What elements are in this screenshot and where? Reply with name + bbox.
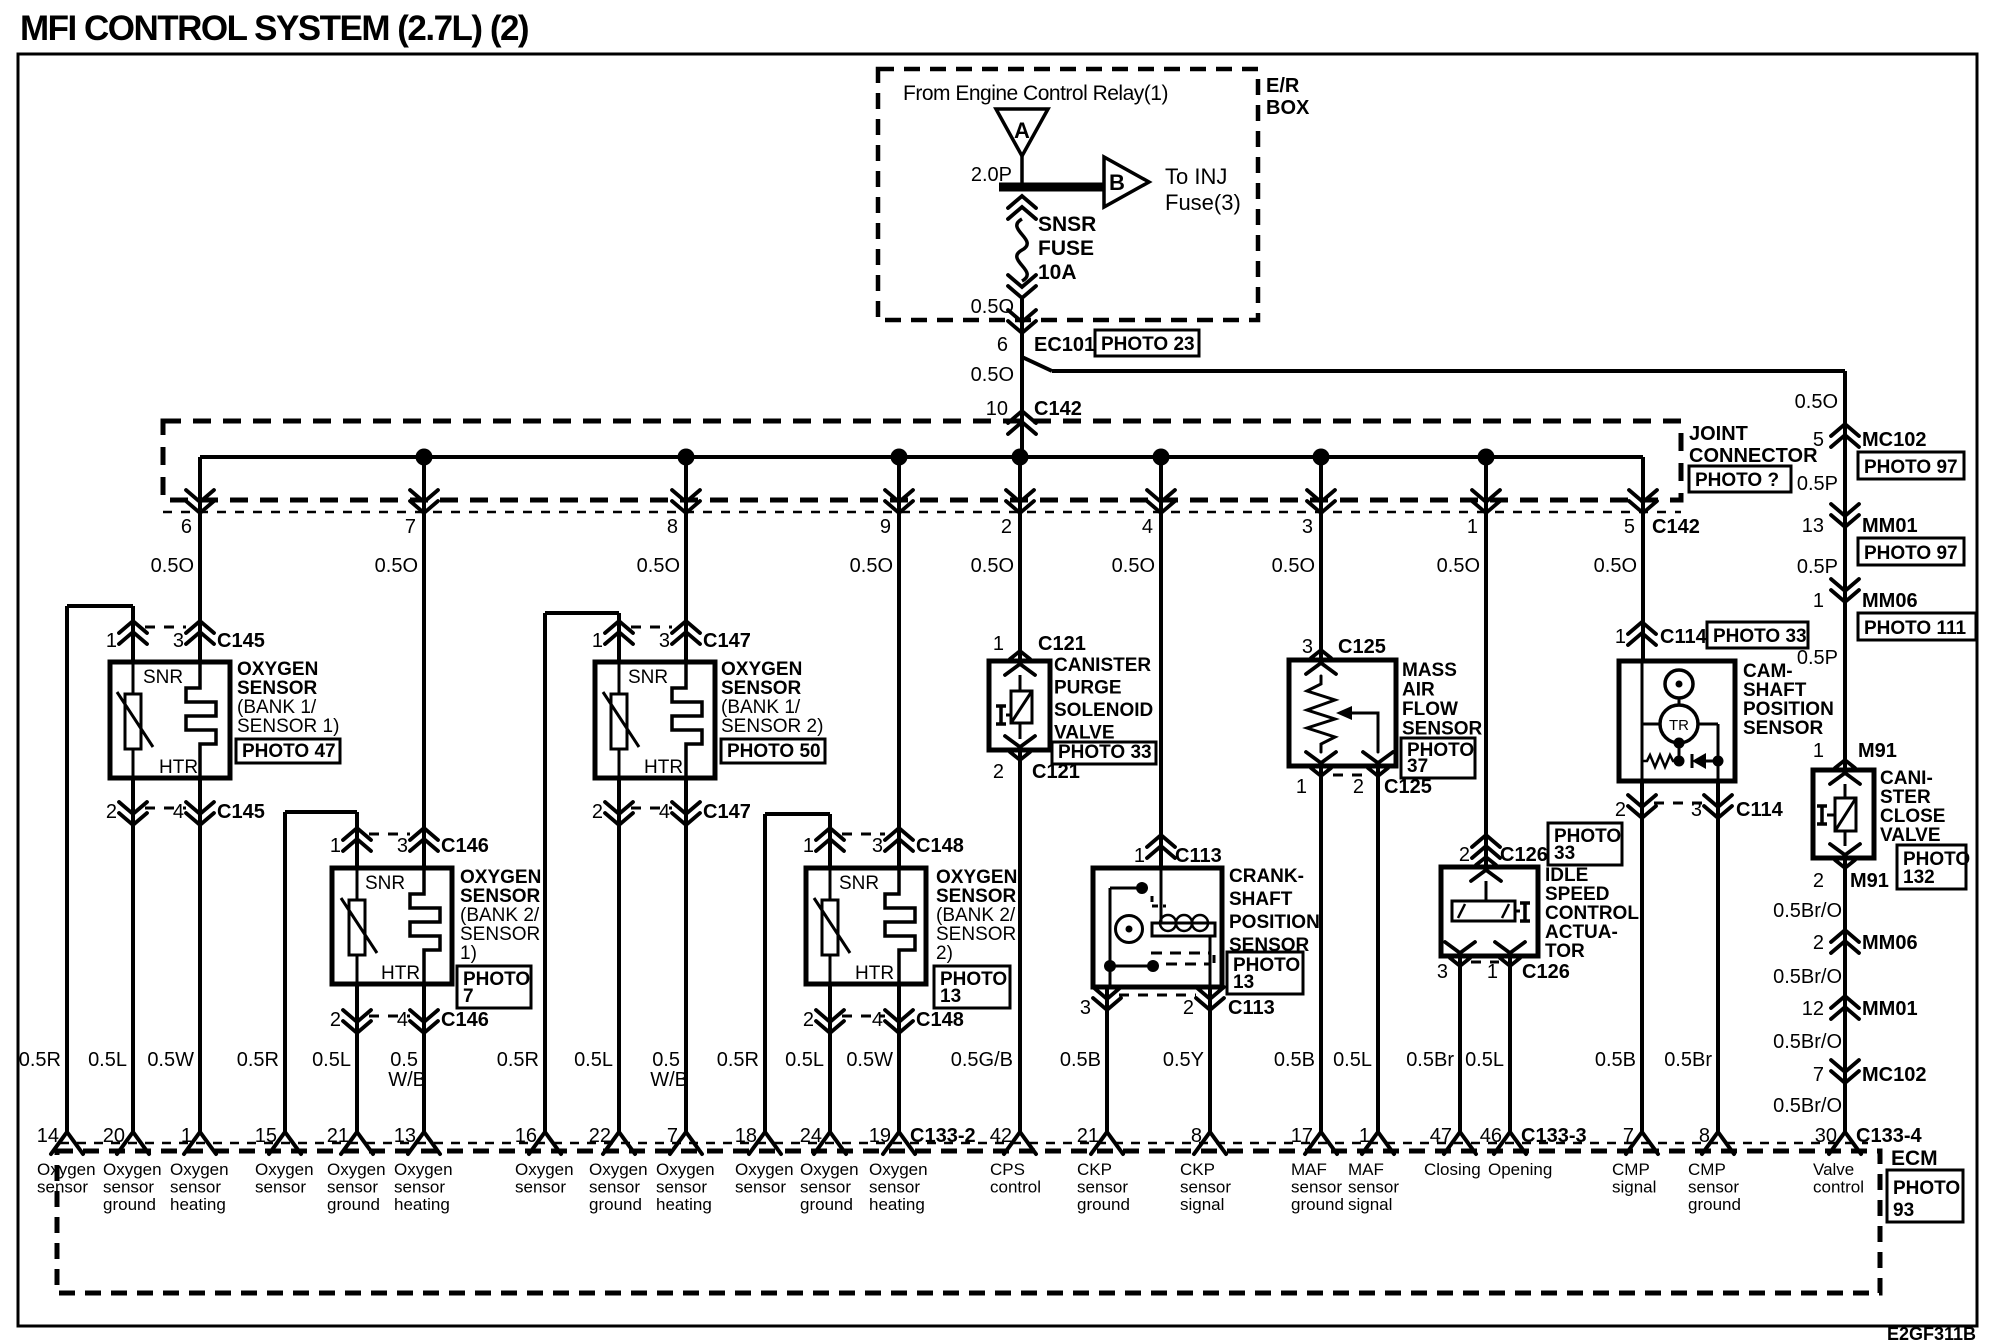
joint connector exit chevrons wire 2 xyxy=(1006,490,1034,502)
svg-text:CONTROL: CONTROL xyxy=(1545,903,1639,924)
svg-text:PURGE: PURGE xyxy=(1054,678,1122,699)
svg-text:A: A xyxy=(1014,118,1030,143)
svg-text:3: 3 xyxy=(1302,516,1313,538)
svg-text:CMP: CMP xyxy=(1688,1160,1726,1179)
svg-text:2: 2 xyxy=(1353,776,1364,798)
svg-text:HTR: HTR xyxy=(159,757,198,778)
svg-text:Opening: Opening xyxy=(1488,1160,1552,1179)
CKP dashed gap line 2 xyxy=(1166,963,1210,966)
B2S2 U4 bottom connector dashes xyxy=(842,1015,885,1018)
svg-text:SENSOR: SENSOR xyxy=(460,886,541,907)
CPSV solenoid coil symbol xyxy=(1011,691,1032,723)
CKP pin 3 connector chevrons xyxy=(1093,987,1121,999)
svg-text:FLOW: FLOW xyxy=(1402,699,1458,720)
oxygen sensor B2S2 U4 xyxy=(806,868,926,984)
svg-text:0.5W: 0.5W xyxy=(147,1049,194,1071)
svg-text:2: 2 xyxy=(1459,844,1470,866)
svg-text:PHOTO 33: PHOTO 33 xyxy=(1713,626,1807,647)
svg-text:8: 8 xyxy=(1191,1125,1202,1147)
svg-text:10A: 10A xyxy=(1038,261,1077,284)
svg-text:OXYGEN: OXYGEN xyxy=(936,867,1017,888)
wire runs: oxygen sensor group 1 xyxy=(198,457,202,662)
thermistor SNR of B2S2 U4 xyxy=(829,868,832,900)
svg-text:sensor: sensor xyxy=(327,1178,378,1197)
svg-text:132: 132 xyxy=(1903,867,1935,888)
svg-text:4: 4 xyxy=(872,1009,883,1031)
PHOTO 7 label xyxy=(457,966,531,1008)
ECM pin 22 xyxy=(603,1132,635,1154)
svg-text:1: 1 xyxy=(1813,590,1824,612)
svg-text:1: 1 xyxy=(1134,845,1145,867)
svg-text:heating: heating xyxy=(869,1195,925,1214)
svg-text:0.5R: 0.5R xyxy=(19,1049,61,1071)
svg-text:C114: C114 xyxy=(1660,626,1708,648)
svg-text:17: 17 xyxy=(1291,1125,1313,1147)
CMP diode xyxy=(1691,754,1694,768)
svg-text:W/B: W/B xyxy=(388,1069,426,1091)
ISCA pin 1 terminal chevrons xyxy=(1495,942,1525,953)
CKP pickup dot xyxy=(1136,882,1148,894)
svg-text:MAF: MAF xyxy=(1291,1160,1327,1179)
svg-text:2: 2 xyxy=(993,761,1004,783)
svg-text:0.5R: 0.5R xyxy=(237,1049,279,1071)
svg-text:sensor: sensor xyxy=(735,1178,786,1197)
joint connector exit chevrons wire 6 xyxy=(186,490,214,502)
svg-text:PHOTO ?: PHOTO ? xyxy=(1695,470,1779,491)
ECM pin 47 xyxy=(1444,1132,1476,1154)
connector B (to INJ fuse) xyxy=(1104,157,1149,207)
MM01 pin 13 connector chevrons xyxy=(1831,504,1859,516)
bus junction at wire 3 xyxy=(1313,449,1330,466)
PHOTO 37 label xyxy=(1401,738,1475,778)
svg-text:0.5B: 0.5B xyxy=(1060,1049,1101,1071)
svg-text:13: 13 xyxy=(1802,515,1824,537)
svg-text:3: 3 xyxy=(872,835,883,857)
svg-text:SENSOR: SENSOR xyxy=(936,886,1017,907)
svg-text:2: 2 xyxy=(1615,799,1626,821)
ECM pin 20 xyxy=(117,1132,149,1154)
svg-text:0.5L: 0.5L xyxy=(574,1049,613,1071)
CMP pin 1 connector chevrons xyxy=(1628,622,1656,634)
joint connector C142 thin dashed connector line xyxy=(163,511,1681,514)
svg-text:C147: C147 xyxy=(703,630,751,652)
CKP pin 2 connector chevrons xyxy=(1196,987,1224,999)
svg-text:9: 9 xyxy=(880,516,891,538)
ECM pin 42 xyxy=(1004,1132,1036,1154)
svg-text:MM06: MM06 xyxy=(1862,590,1918,612)
svg-text:HTR: HTR xyxy=(644,757,683,778)
svg-text:MC102: MC102 xyxy=(1862,1064,1926,1086)
svg-text:5: 5 xyxy=(1624,516,1635,538)
bus junction at wire 8 xyxy=(678,449,695,466)
svg-text:(BANK 1/: (BANK 1/ xyxy=(237,697,317,718)
heater HTR of B1S2 U3 xyxy=(672,662,702,778)
svg-text:POSITION: POSITION xyxy=(1743,699,1834,720)
ECM pin 21 xyxy=(1091,1132,1123,1154)
bus junction at wire 9 xyxy=(891,449,908,466)
wire runs: idle speed control actuator xyxy=(1484,457,1488,867)
svg-text:C125: C125 xyxy=(1338,636,1386,658)
svg-text:STER: STER xyxy=(1880,787,1931,808)
svg-text:signal: signal xyxy=(1612,1178,1656,1197)
CKP internals xyxy=(1160,868,1163,923)
svg-text:Oxygen: Oxygen xyxy=(589,1160,648,1179)
heater HTR of B2S1 U2 xyxy=(410,868,440,984)
svg-text:CONNECTOR: CONNECTOR xyxy=(1689,445,1818,467)
svg-text:1: 1 xyxy=(1813,740,1824,762)
svg-text:93: 93 xyxy=(1893,1200,1914,1221)
svg-text:PHOTO: PHOTO xyxy=(1893,1178,1960,1199)
MM06 pin 1 connector chevrons xyxy=(1831,579,1859,591)
CPSV bottom terminal chevrons xyxy=(1005,736,1035,747)
svg-text:4: 4 xyxy=(659,801,670,823)
svg-text:HTR: HTR xyxy=(855,963,894,984)
ECM pin 7 xyxy=(670,1132,702,1154)
bus wire (0.5O distribution) xyxy=(200,455,1643,459)
svg-text:46: 46 xyxy=(1480,1125,1502,1147)
B2S1 U2 pin 4 connector chevrons xyxy=(410,1010,438,1022)
svg-text:16: 16 xyxy=(515,1125,537,1147)
svg-text:Oxygen: Oxygen xyxy=(869,1160,928,1179)
svg-text:(BANK 2/: (BANK 2/ xyxy=(936,905,1016,926)
svg-text:Oxygen: Oxygen xyxy=(515,1160,574,1179)
svg-text:C113: C113 xyxy=(1175,845,1222,867)
ECM pin 21 xyxy=(341,1132,373,1154)
svg-text:7: 7 xyxy=(405,516,416,538)
svg-text:42: 42 xyxy=(990,1125,1012,1147)
MAF arrow xyxy=(1352,713,1378,752)
CMP resistor xyxy=(1642,755,1679,767)
svg-text:PHOTO 47: PHOTO 47 xyxy=(242,741,336,762)
svg-text:C113: C113 xyxy=(1228,997,1275,1019)
svg-text:Oxygen: Oxygen xyxy=(255,1160,314,1179)
svg-text:0.5R: 0.5R xyxy=(497,1049,539,1071)
svg-text:CKP: CKP xyxy=(1077,1160,1112,1179)
svg-text:10: 10 xyxy=(986,398,1008,420)
CKP right internal wire xyxy=(1209,936,1212,987)
svg-text:ground: ground xyxy=(589,1195,642,1214)
svg-text:15: 15 xyxy=(255,1125,277,1147)
ECM pin 14 xyxy=(51,1132,83,1154)
svg-text:2: 2 xyxy=(592,801,603,823)
ECM pin 46 xyxy=(1494,1132,1526,1154)
svg-text:0.5O: 0.5O xyxy=(971,364,1014,386)
svg-text:37: 37 xyxy=(1407,756,1428,777)
wire runs: oxygen sensor group 4 xyxy=(897,457,901,868)
svg-text:C145: C145 xyxy=(217,630,265,652)
ECM connector thin dashed line xyxy=(60,1142,1868,1145)
svg-text:sensor: sensor xyxy=(255,1178,306,1197)
svg-text:3: 3 xyxy=(1080,997,1091,1019)
svg-text:EC101: EC101 xyxy=(1034,334,1095,356)
svg-text:SHAFT: SHAFT xyxy=(1743,680,1807,701)
svg-text:SENSOR: SENSOR xyxy=(1402,719,1483,740)
B1S1 U1 pin 1 connector chevrons xyxy=(119,621,147,633)
CKP switch dot left xyxy=(1104,960,1116,972)
svg-text:0.5O: 0.5O xyxy=(375,555,418,577)
wire A to power bus xyxy=(1020,156,1024,187)
svg-text:IDLE: IDLE xyxy=(1545,865,1588,886)
svg-text:sensor: sensor xyxy=(37,1178,88,1197)
svg-text:Oxygen: Oxygen xyxy=(170,1160,229,1179)
svg-text:0.5P: 0.5P xyxy=(1797,647,1838,669)
svg-text:3: 3 xyxy=(397,835,408,857)
wire run: right chain canister close valve xyxy=(1843,371,1847,770)
PHOTO 47 label xyxy=(236,739,340,763)
wire runs: canister purge solenoid valve xyxy=(1018,457,1022,661)
joint connector exit chevrons wire 3 xyxy=(1307,490,1335,502)
B2S2 U4 pin 3 connector chevrons xyxy=(885,828,913,840)
MC102 pin 5 connector chevrons xyxy=(1831,424,1859,436)
svg-text:3: 3 xyxy=(1691,799,1702,821)
svg-text:AIR: AIR xyxy=(1402,680,1435,701)
PHOTO 97 label 2 xyxy=(1858,538,1964,565)
svg-text:TOR: TOR xyxy=(1545,941,1585,962)
svg-text:20: 20 xyxy=(103,1125,125,1147)
svg-text:7: 7 xyxy=(1813,1064,1824,1086)
svg-text:C126: C126 xyxy=(1500,844,1548,866)
svg-text:0.5L: 0.5L xyxy=(1333,1049,1372,1071)
svg-text:To INJ: To INJ xyxy=(1165,164,1227,189)
thermistor SNR of B2S1 U2 xyxy=(356,868,359,900)
svg-text:0.5O: 0.5O xyxy=(850,555,893,577)
svg-text:SNR: SNR xyxy=(628,667,668,688)
svg-text:Oxygen: Oxygen xyxy=(735,1160,794,1179)
svg-text:ACTUA-: ACTUA- xyxy=(1545,922,1618,943)
svg-text:2: 2 xyxy=(803,1009,814,1031)
svg-text:OXYGEN: OXYGEN xyxy=(460,867,541,888)
svg-text:(BANK 2/: (BANK 2/ xyxy=(460,905,540,926)
ECM pin 8 xyxy=(1194,1132,1226,1154)
wire runs: mass air flow sensor xyxy=(1319,457,1323,660)
bus junction at wire 4 xyxy=(1153,449,1170,466)
CKP dashed gap line 1 xyxy=(1151,952,1210,955)
ISCA bottom connector dashes xyxy=(1471,961,1499,964)
svg-text:SENSOR 2): SENSOR 2) xyxy=(721,716,823,737)
svg-text:1: 1 xyxy=(1615,626,1626,648)
svg-text:C146: C146 xyxy=(441,835,489,857)
svg-text:CLOSE: CLOSE xyxy=(1880,806,1945,827)
CCV top terminal chevrons xyxy=(1835,760,1855,768)
PHOTO 132 label xyxy=(1897,845,1966,889)
svg-text:ground: ground xyxy=(1291,1195,1344,1214)
PHOTO 33 label ISCA xyxy=(1548,823,1622,865)
CCV bottom terminal chevrons xyxy=(1830,844,1860,855)
fuse bottom connector chevrons xyxy=(1008,275,1036,287)
svg-text:0.5: 0.5 xyxy=(390,1049,418,1071)
svg-text:22: 22 xyxy=(589,1125,611,1147)
svg-text:E2GF311B: E2GF311B xyxy=(1887,1324,1976,1344)
svg-text:1: 1 xyxy=(1487,961,1498,983)
oxygen sensor B1S2 U3 xyxy=(595,662,715,778)
svg-text:C133-2: C133-2 xyxy=(910,1125,976,1147)
svg-text:Oxygen: Oxygen xyxy=(327,1160,386,1179)
joint connector exit chevrons wire 9 xyxy=(885,490,913,502)
svg-text:SENSOR 1): SENSOR 1) xyxy=(237,716,339,737)
svg-text:4: 4 xyxy=(397,1009,408,1031)
wire runs: oxygen sensor group 2 xyxy=(422,457,426,868)
svg-text:7: 7 xyxy=(667,1125,678,1147)
power feed thick bar xyxy=(999,183,1104,192)
CKP switch dot right xyxy=(1147,960,1159,972)
svg-text:POSITION: POSITION xyxy=(1229,912,1320,933)
svg-text:0.5B: 0.5B xyxy=(1274,1049,1315,1071)
CKP reluctor wheel xyxy=(1116,916,1143,943)
svg-text:0.5P: 0.5P xyxy=(1797,473,1838,495)
svg-text:SHAFT: SHAFT xyxy=(1229,889,1293,910)
ECM pin 18 xyxy=(749,1132,781,1154)
svg-text:8: 8 xyxy=(1699,1125,1710,1147)
svg-text:0.5R: 0.5R xyxy=(717,1049,759,1071)
B1S2 U3 pin 2 connector chevrons xyxy=(605,802,633,814)
wire runs: crankshaft position sensor xyxy=(1159,457,1163,868)
svg-text:signal: signal xyxy=(1348,1195,1392,1214)
svg-text:OXYGEN: OXYGEN xyxy=(721,659,802,680)
svg-text:sensor: sensor xyxy=(515,1178,566,1197)
C142 pin 10 chevrons xyxy=(1008,411,1036,423)
B1S2 U3 pin 3 connector chevrons xyxy=(672,621,700,633)
svg-text:(BANK 1/: (BANK 1/ xyxy=(721,697,801,718)
svg-text:PHOTO 33: PHOTO 33 xyxy=(1058,742,1152,763)
svg-text:19: 19 xyxy=(869,1125,891,1147)
svg-text:SNR: SNR xyxy=(143,667,183,688)
ISCA valve body xyxy=(1452,901,1515,921)
svg-text:sensor: sensor xyxy=(1348,1178,1399,1197)
svg-text:3: 3 xyxy=(1302,636,1313,658)
PHOTO 33 label xyxy=(1052,742,1156,764)
svg-text:1: 1 xyxy=(1467,516,1478,538)
B2S1 U2 pin 2 connector chevrons xyxy=(343,1010,371,1022)
svg-text:C147: C147 xyxy=(703,801,751,823)
svg-text:heating: heating xyxy=(656,1195,712,1214)
svg-text:0.5: 0.5 xyxy=(652,1049,680,1071)
svg-text:30: 30 xyxy=(1815,1125,1837,1147)
svg-text:1: 1 xyxy=(993,633,1004,655)
svg-text:C114: C114 xyxy=(1736,799,1784,821)
joint connector dashed box xyxy=(163,421,1681,500)
svg-text:1: 1 xyxy=(330,835,341,857)
joint connector exit chevrons wire 7 xyxy=(410,490,438,502)
connector A (from engine control relay) xyxy=(996,109,1048,156)
svg-text:sensor: sensor xyxy=(1688,1178,1739,1197)
svg-text:0.5Br/O: 0.5Br/O xyxy=(1773,1031,1842,1053)
wire runs: oxygen sensor group 3 xyxy=(684,457,688,662)
MAF bottom connector dashes xyxy=(1333,774,1366,777)
wire runs: camshaft position sensor xyxy=(1641,457,1645,661)
CMP left internal wire xyxy=(1641,661,1644,781)
B2S1 U2 bottom connector dashes xyxy=(369,1015,410,1018)
svg-text:sensor: sensor xyxy=(800,1178,851,1197)
B2S2 U4 pin 1 connector chevrons xyxy=(816,828,844,840)
svg-text:MM01: MM01 xyxy=(1862,515,1918,537)
svg-text:6: 6 xyxy=(181,516,192,538)
B1S2 U3 pin 4 connector chevrons xyxy=(672,802,700,814)
svg-text:BOX: BOX xyxy=(1266,97,1310,119)
svg-text:0.5Br/O: 0.5Br/O xyxy=(1773,1095,1842,1117)
svg-text:OXYGEN: OXYGEN xyxy=(237,659,318,680)
svg-text:sensor: sensor xyxy=(1291,1178,1342,1197)
svg-text:C142: C142 xyxy=(1034,398,1082,420)
bus junction at wire 7 xyxy=(416,449,433,466)
svg-text:ground: ground xyxy=(1077,1195,1130,1214)
ECM pin 24 xyxy=(814,1132,846,1154)
ECM pin 13 xyxy=(408,1132,440,1154)
E/R box exit chevrons xyxy=(1008,310,1036,322)
MM01 pin 12 connector chevrons xyxy=(1831,996,1859,1008)
PHOTO 13 label xyxy=(934,966,1010,1008)
svg-text:1: 1 xyxy=(803,835,814,857)
svg-text:CMP: CMP xyxy=(1612,1160,1650,1179)
svg-text:VALVE: VALVE xyxy=(1880,825,1941,846)
svg-text:0.5O: 0.5O xyxy=(1437,555,1480,577)
MAF measuring resistor xyxy=(1307,676,1335,752)
B1S1 U1 pin 3 connector chevrons xyxy=(186,621,214,633)
svg-text:0.5L: 0.5L xyxy=(88,1049,127,1071)
svg-text:CANI-: CANI- xyxy=(1880,768,1933,789)
svg-text:TR: TR xyxy=(1669,717,1689,734)
svg-text:PHOTO 97: PHOTO 97 xyxy=(1864,457,1958,478)
MAF top terminal chevrons xyxy=(1311,650,1331,658)
svg-text:Oxygen: Oxygen xyxy=(656,1160,715,1179)
ISCA pin 3 terminal chevrons xyxy=(1445,942,1475,953)
svg-text:Oxygen: Oxygen xyxy=(37,1160,96,1179)
svg-text:sensor: sensor xyxy=(1180,1178,1231,1197)
svg-text:SENSOR: SENSOR xyxy=(237,678,318,699)
svg-text:From Engine Control Relay(1): From Engine Control Relay(1) xyxy=(903,82,1168,105)
ECM dashed box xyxy=(57,1151,1880,1293)
svg-text:47: 47 xyxy=(1430,1125,1452,1147)
svg-text:21: 21 xyxy=(327,1125,349,1147)
svg-text:21: 21 xyxy=(1077,1125,1099,1147)
B1S1 U1 bottom connector dashes xyxy=(145,807,186,810)
svg-text:ground: ground xyxy=(1688,1195,1741,1214)
svg-text:1: 1 xyxy=(1359,1125,1370,1147)
PHOTO 33 label CMP xyxy=(1707,622,1808,648)
svg-text:0.5Br: 0.5Br xyxy=(1664,1049,1712,1071)
svg-text:W/B: W/B xyxy=(650,1069,688,1091)
MM06 pin 2 connector chevrons xyxy=(1831,930,1859,942)
svg-text:4: 4 xyxy=(173,801,184,823)
svg-text:SNSR: SNSR xyxy=(1038,213,1096,236)
bus junction at wire 1 xyxy=(1478,449,1495,466)
B1S1 U1 pin 2 connector chevrons xyxy=(119,802,147,814)
svg-text:0.5O: 0.5O xyxy=(971,296,1014,318)
CMP pin 3 connector chevrons xyxy=(1704,795,1732,807)
B2S2 U4 pin 4 connector chevrons xyxy=(885,1010,913,1022)
svg-text:1: 1 xyxy=(592,630,603,652)
svg-text:SPEED: SPEED xyxy=(1545,884,1609,905)
ECM pin 1 xyxy=(184,1132,216,1154)
svg-text:ECM: ECM xyxy=(1891,1147,1938,1170)
svg-text:7: 7 xyxy=(1623,1125,1634,1147)
svg-text:CANISTER: CANISTER xyxy=(1054,655,1151,676)
svg-text:C142: C142 xyxy=(1652,516,1700,538)
ECM pin 16 xyxy=(529,1132,561,1154)
svg-text:0.5L: 0.5L xyxy=(1465,1049,1504,1071)
svg-text:2: 2 xyxy=(106,801,117,823)
svg-text:5: 5 xyxy=(1813,429,1824,451)
svg-text:3: 3 xyxy=(659,630,670,652)
svg-text:0.5B: 0.5B xyxy=(1595,1049,1636,1071)
PHOTO ? label xyxy=(1689,466,1791,492)
svg-text:13: 13 xyxy=(940,986,961,1007)
svg-text:0.5G/B: 0.5G/B xyxy=(951,1049,1013,1071)
svg-text:13: 13 xyxy=(1233,972,1254,993)
svg-text:7: 7 xyxy=(463,986,474,1007)
wire: fuse down to bus xyxy=(1020,299,1024,457)
svg-text:0.5O: 0.5O xyxy=(637,555,680,577)
PHOTO 93 label xyxy=(1887,1170,1963,1222)
